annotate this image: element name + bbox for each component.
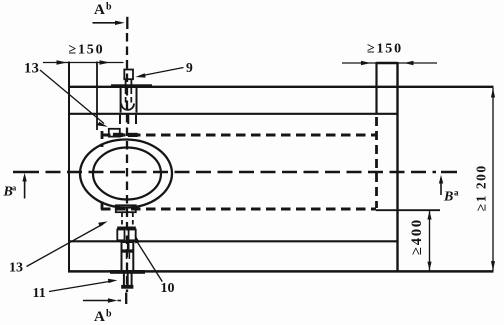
arrowhead dim right150 left <box>361 61 371 65</box>
bolt 11 tip cap <box>121 285 133 289</box>
bolt 9 neck right <box>130 79 132 86</box>
bolt 9 lower stud left <box>119 115 121 124</box>
leader 13 bottom <box>27 224 104 267</box>
leader 11 <box>49 281 112 292</box>
svg-text:10: 10 <box>161 281 175 296</box>
wire top edge thick band at bolt <box>111 84 152 88</box>
arrowhead section A bottom <box>108 298 118 302</box>
dimension line 1200 vertical <box>492 88 494 271</box>
node hole outer ellipse <box>80 140 172 208</box>
arrowhead dim 400 down <box>427 262 431 271</box>
section arrow A bottom line <box>83 300 109 302</box>
section tick A bottom <box>125 293 127 305</box>
wire right vertical column right <box>396 62 398 272</box>
bolt 11 tip stripe right <box>131 273 133 286</box>
section arrow B right line <box>440 178 442 195</box>
bolt 9 lower stud right <box>135 115 137 124</box>
svg-text:A: A <box>94 309 105 325</box>
wire left edge vertical <box>68 62 70 273</box>
wire hidden dashed rectangle top <box>101 134 376 137</box>
arrowhead section B right <box>439 175 443 184</box>
leader 10 <box>136 240 162 282</box>
svg-text:9: 9 <box>186 60 193 75</box>
hidden shaft lower right <box>132 213 134 227</box>
bolt 11 dark band <box>122 249 134 252</box>
arrowhead section A top <box>115 21 125 25</box>
wire hidden dashed rectangle right <box>375 117 378 208</box>
bolt 9 inner shaft left <box>125 88 127 103</box>
svg-text:≥1 200: ≥1 200 <box>474 164 489 211</box>
wire hidden dashed rectangle left lower <box>101 202 104 214</box>
bolt 11 inner slot left <box>126 253 128 259</box>
wire bottom edge thick band at bolt <box>110 270 145 274</box>
dimension line 400 vertical <box>429 211 431 271</box>
nut 10 right block <box>129 230 136 241</box>
svg-text:11: 11 <box>33 286 46 301</box>
dimension line right 150 <box>342 62 437 64</box>
nut 10 top bar <box>117 227 136 230</box>
arrowhead leader 13 bottom <box>98 221 107 227</box>
wire horizontal centre line B-B first dash <box>13 171 39 174</box>
section arrow A bottom stub <box>118 300 122 302</box>
bolt 11 castellation centre <box>127 242 130 249</box>
arrowhead section B left <box>22 173 26 182</box>
svg-text:13: 13 <box>24 61 39 77</box>
arrowhead dim 1200 up <box>491 88 495 97</box>
svg-text:B: B <box>443 190 453 205</box>
dimension line left 150 <box>43 62 124 64</box>
arrowhead leader 11 <box>108 279 118 283</box>
wire top slab edge <box>68 86 494 88</box>
section arrow B left line <box>24 176 26 199</box>
svg-text:b: b <box>106 309 112 320</box>
wire horizontal centre line B-B <box>46 171 437 174</box>
bolt 11 lower body outline <box>122 242 134 271</box>
bolt 11 tip stripe middle <box>127 273 129 286</box>
wire third slab line <box>68 240 398 242</box>
bolt 9 inner shaft right <box>130 88 132 103</box>
wire right vertical column left <box>375 62 377 115</box>
bolt 11 tip stripe left <box>123 273 125 286</box>
wire second slab line <box>68 113 398 115</box>
wire hidden dashed rectangle bottom <box>101 208 376 211</box>
clamp 13 thick dash right <box>128 133 138 137</box>
node hole inner ellipse <box>93 148 161 200</box>
svg-text:A: A <box>94 2 105 18</box>
svg-text:≥400: ≥400 <box>409 218 425 255</box>
hidden shaft lower left <box>121 213 123 227</box>
leader 13 top <box>40 70 104 124</box>
arrowhead dim left150 second <box>100 60 111 64</box>
wire solid extension line y210 <box>376 209 440 211</box>
dimension right 150 thick middle <box>377 62 398 65</box>
wire horizontal centre line B-B last dash <box>441 171 457 174</box>
wire hidden dashed rectangle left upper <box>101 131 104 147</box>
section arrow A top line <box>93 22 120 24</box>
arrowhead dim right150 right <box>404 61 414 65</box>
bolt 9 neck left <box>125 79 127 86</box>
wire bottom slab edge <box>68 270 494 273</box>
clamp 13 thick dash left <box>113 133 123 137</box>
bolt 9 lower stud middle <box>127 115 129 124</box>
clamp plate 13 top <box>109 129 120 137</box>
arrowhead leader 13 top <box>97 122 108 127</box>
leader 9 <box>140 68 184 77</box>
arrowhead leader 10 <box>135 234 140 244</box>
svg-text:b: b <box>106 2 112 13</box>
svg-text:≥150: ≥150 <box>69 43 105 58</box>
wire second vertical extension <box>96 62 98 131</box>
section tick A top <box>126 17 128 29</box>
arrowhead dim left150 first <box>57 60 68 64</box>
bolt 9 washer arc <box>121 104 134 110</box>
svg-text:≥150: ≥150 <box>367 42 403 57</box>
nut 10 left block <box>117 230 124 241</box>
bolt 9 head <box>124 70 133 80</box>
bolt 11 inner slot right <box>128 253 130 259</box>
arrowhead dim 1200 down <box>491 261 495 270</box>
bolt 9 body left side <box>120 88 122 113</box>
wire vertical centre line A-A <box>126 33 128 292</box>
svg-text:13: 13 <box>9 261 23 276</box>
anchor plate lower <box>116 205 136 212</box>
arrowhead dim 400 up <box>427 211 431 220</box>
bolt 9 body right side <box>136 88 138 113</box>
arrowhead leader 9 <box>135 73 145 77</box>
svg-text:a: a <box>454 188 459 198</box>
